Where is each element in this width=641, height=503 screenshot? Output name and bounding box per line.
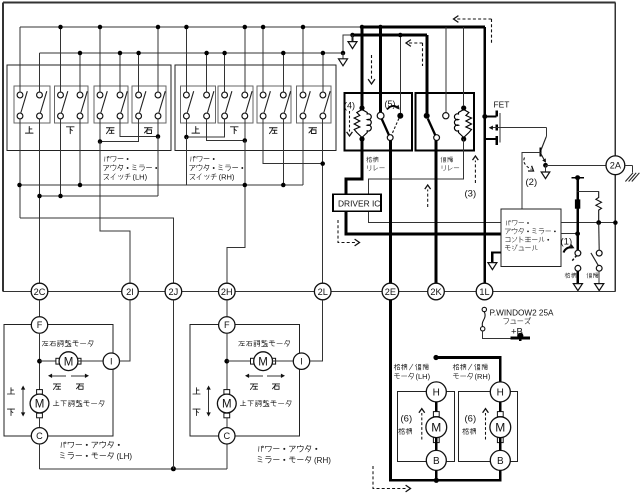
switch cell 下 (RH) box bbox=[218, 86, 253, 123]
svg-text:2K: 2K bbox=[430, 287, 442, 297]
switch contact 下R (RH) bbox=[242, 91, 252, 119]
wire M1 right lead (LH) bbox=[78, 360, 103, 362]
caption 左右調整モータ (LH) bbox=[42, 340, 93, 346]
wire K2 NO contact stub bbox=[445, 27, 447, 113]
node common 2J junction bbox=[171, 466, 176, 471]
wire LH 左L bottom stub bbox=[99, 119, 101, 142]
caption 上下調整モータ (RH) bbox=[240, 400, 291, 406]
label FET bbox=[494, 100, 510, 110]
caption パワー・アウタ・ミラー・モータ (RH) bbox=[258, 445, 331, 465]
label 右 under arrow (RH) bbox=[272, 384, 279, 389]
svg-text:+B: +B bbox=[511, 327, 523, 338]
wire RH 下R bottom stub bbox=[244, 119, 246, 141]
motor M1 (LH) bbox=[56, 352, 81, 371]
switch 格納 bottom circle bbox=[575, 265, 581, 271]
connector 1L bbox=[476, 283, 493, 300]
switch contact 上L (LH) bbox=[17, 91, 27, 119]
caption 格納 (RH retract) bbox=[463, 428, 476, 434]
wire LH 右R bottom stub bbox=[157, 119, 159, 137]
wire page right bus upper bbox=[614, 3, 616, 157]
wire feed bus 2 (y=53) bbox=[40, 52, 344, 54]
svg-text:H: H bbox=[497, 387, 504, 398]
svg-text:2J: 2J bbox=[169, 287, 179, 297]
wire switch top stub x283.3 to bus2 bbox=[282, 53, 284, 92]
label 下 (LH motor) bbox=[7, 409, 14, 415]
node resistor bottom bbox=[596, 220, 601, 225]
element fuse block bbox=[575, 199, 580, 208]
wire 2E to B motors bbox=[390, 300, 500, 481]
wire netB horizontal (y=196) bbox=[40, 195, 159, 197]
svg-text:C: C bbox=[223, 431, 230, 441]
node bus1 x60.5 bbox=[58, 25, 63, 30]
node bus1 x263.1 bbox=[261, 25, 266, 30]
label 右 (LH) bbox=[144, 128, 152, 134]
label (6) LH bbox=[401, 414, 413, 425]
fuse P.WINDOW2 upper circle bbox=[482, 307, 486, 311]
wire K1 common to 2E bbox=[389, 141, 392, 284]
relay contact K2 common circle bbox=[434, 135, 440, 141]
wire net 上R-LH down to 2C bbox=[39, 119, 41, 283]
transistor Q2 bbox=[541, 137, 547, 163]
node M junction (LH) bbox=[37, 359, 42, 364]
wire netA RH 右L stub bbox=[302, 119, 304, 185]
caption 左右調整モータ (RH) bbox=[239, 340, 290, 346]
wire F to M1/M2 (RH) bbox=[226, 333, 228, 394]
chip DRIVER IC box bbox=[333, 194, 381, 211]
label 左 (RH) bbox=[269, 128, 277, 134]
motor box LH outline bbox=[4, 325, 113, 436]
wire switch top stub x263.1 to bus1 bbox=[262, 27, 264, 92]
connector 2A circle bbox=[606, 156, 625, 175]
wire net 左L右L-LH to 2I bbox=[100, 142, 130, 284]
label 右 under arrow (LH) bbox=[76, 384, 83, 389]
wire common return bbox=[40, 468, 227, 470]
svg-text:I: I bbox=[110, 356, 113, 366]
switch contact 上R (RH) bbox=[204, 91, 214, 119]
svg-text:(LH): (LH) bbox=[416, 372, 431, 381]
wire H to M (LH) bbox=[435, 402, 438, 418]
wire net 下R-LH down bbox=[79, 119, 81, 185]
label 下 (RH) bbox=[230, 127, 238, 134]
node bus2 x224.6 bbox=[222, 51, 227, 56]
svg-text:M: M bbox=[64, 356, 74, 368]
wire H to M (RH) bbox=[499, 402, 502, 418]
label (3) bbox=[465, 189, 477, 200]
switch 復帰 blade bbox=[591, 253, 598, 265]
switch box LH outline bbox=[7, 65, 171, 151]
svg-text:I: I bbox=[300, 356, 303, 366]
terminal bar top bbox=[571, 175, 584, 180]
wire K1 coil to driver IC bbox=[346, 139, 362, 194]
wire net wireC to 2J bbox=[20, 218, 173, 283]
wire page left bus bbox=[2, 3, 4, 292]
wire driver IC out to module bbox=[346, 211, 501, 234]
svg-text:(6): (6) bbox=[465, 414, 477, 425]
wire B LH drop bbox=[435, 470, 438, 480]
wire Q2 emitter to 2A bbox=[546, 164, 606, 166]
flow arrow (3) dashed bbox=[473, 156, 479, 183]
connector B (LH retract) bbox=[426, 450, 446, 470]
connector C (LH) bbox=[31, 428, 47, 444]
wire detect branch right bbox=[578, 190, 599, 192]
wire fuse to +B bbox=[482, 331, 510, 338]
switch cell 右 (LH) box bbox=[132, 86, 166, 123]
switch cell 左 (RH) box bbox=[257, 86, 291, 123]
svg-text:M: M bbox=[222, 399, 232, 411]
relay K1 blade alt (dashed) bbox=[392, 118, 399, 134]
connector C (RH) bbox=[219, 428, 235, 444]
motor M (RH retract) bbox=[490, 412, 511, 443]
svg-text:(2): (2) bbox=[526, 177, 538, 188]
wire switch top stub x158 to bus1 bbox=[157, 27, 159, 92]
wire switch top stub x303 to bus1 bbox=[302, 27, 304, 92]
switch cell 左 (LH) box bbox=[94, 86, 128, 123]
switch cell 上 (LH) box bbox=[14, 86, 50, 123]
wire RH 上R-下R link bbox=[207, 119, 247, 143]
label 左 (LH) bbox=[106, 128, 114, 134]
node B junction bbox=[434, 478, 439, 483]
arrow 上下 (LH) bbox=[21, 386, 25, 417]
switch contact 右R (RH) bbox=[320, 91, 330, 119]
caption 格納 switch bbox=[565, 273, 576, 278]
caption 格納リレー bbox=[367, 157, 385, 171]
svg-text:(LH): (LH) bbox=[133, 173, 148, 182]
connector 2E bbox=[382, 283, 399, 300]
motor M2 (RH) bbox=[217, 390, 236, 418]
caption 格納 (LH retract) bbox=[399, 428, 412, 434]
caption 格納／復帰モータ (RH) bbox=[453, 364, 491, 381]
wire M1 right lead (RH) bbox=[273, 360, 294, 362]
flow arrow (1) curved bbox=[564, 244, 575, 253]
motor box RH outline bbox=[190, 325, 300, 436]
caption 格納／復帰モータ (LH) bbox=[394, 364, 431, 381]
wire netA horizontal (y=185) bbox=[20, 184, 304, 186]
switch box RH outline bbox=[175, 65, 336, 151]
node bus2 x206.6 bbox=[204, 51, 209, 56]
wire switch top stub x100 to bus1 bbox=[99, 27, 101, 92]
motor M (LH retract) bbox=[426, 412, 447, 443]
wire LH 左R-右R link bbox=[120, 119, 160, 139]
relay contact K1 common circle bbox=[387, 135, 393, 141]
svg-text:(4): (4) bbox=[344, 101, 355, 111]
wire switch top stub x80 to bus2 bbox=[79, 53, 81, 92]
wire switch top stub x244.8 to bus1 bbox=[244, 27, 246, 92]
svg-text:1L: 1L bbox=[479, 287, 489, 297]
caption 復帰リレー bbox=[441, 157, 459, 171]
label 左 under arrow (RH) bbox=[250, 384, 257, 390]
switch contact 上R (LH) bbox=[37, 91, 47, 119]
arrow 右 (RH) bbox=[267, 374, 285, 378]
flow arrow (2) curved bbox=[524, 158, 534, 172]
wire switch top stub x60.5 to bus1 bbox=[60, 27, 62, 92]
flow arrow D1 bbox=[454, 16, 492, 44]
label 上 (RH) bbox=[192, 126, 200, 133]
flow arrow D11 bbox=[373, 466, 411, 492]
relay contact K1 pivot circle bbox=[377, 112, 384, 119]
switch contact 下L (LH) bbox=[58, 91, 68, 119]
node Q2 emitter bbox=[543, 163, 548, 168]
wire module right to mirror sw detect bbox=[561, 233, 578, 235]
connector H (RH retract) bbox=[490, 382, 510, 402]
wire switch top stub x206.6 to bus2 bbox=[206, 53, 208, 92]
wire 2J drop bbox=[172, 300, 174, 469]
label 下 (LH) bbox=[66, 127, 74, 134]
wire netA RH 左R stub bbox=[282, 119, 284, 185]
relay box 復帰リレー outline bbox=[416, 93, 475, 151]
wire detect main down bbox=[576, 178, 579, 251]
wire feed bus 1 (y=27 thin part) bbox=[20, 26, 362, 28]
node bus1 x303 bbox=[301, 25, 306, 30]
svg-text:C: C bbox=[36, 431, 43, 441]
switch cell 右 (RH) box bbox=[297, 86, 332, 123]
flow arrow D3 bbox=[368, 55, 375, 84]
wire M2 to C (RH) bbox=[226, 418, 228, 428]
wire M1 left lead (RH) bbox=[227, 360, 254, 362]
label P.WINDOW2 25A bbox=[490, 308, 555, 317]
wire switch top stub x120 to bus2 bbox=[119, 53, 121, 92]
wire K2 coil return to module bbox=[369, 139, 501, 223]
node bus1 x244.8 bbox=[243, 25, 248, 30]
svg-text:(1): (1) bbox=[561, 237, 573, 248]
flow arrow (6) LH bbox=[419, 409, 425, 440]
node bus1 x362 bbox=[360, 25, 365, 30]
wire main feed down x485 bbox=[483, 27, 486, 283]
label (4) bbox=[344, 101, 355, 111]
wire K2 common to 2K bbox=[435, 141, 438, 284]
terminal +B bbox=[511, 333, 531, 341]
wire switch top stub x322.9 to bus2 bbox=[322, 53, 324, 92]
arrow 上下 (RH) bbox=[206, 386, 210, 417]
svg-text:M: M bbox=[495, 421, 505, 435]
wire LH 左L-右L link bbox=[98, 119, 139, 144]
arrow 左 (RH) bbox=[245, 374, 263, 378]
switch contact 左R (LH) bbox=[117, 91, 127, 119]
svg-text:2E: 2E bbox=[385, 287, 396, 297]
switch contact 左R (RH) bbox=[280, 91, 290, 119]
relay coil K2 (復帰リレー) bbox=[454, 105, 471, 141]
switch cell 上 (RH) box bbox=[181, 86, 216, 123]
label (6) RH bbox=[465, 414, 477, 425]
caption power outer mirror switch RH bbox=[190, 156, 244, 181]
node netA dots bbox=[17, 183, 285, 188]
node bus2 x80 bbox=[78, 51, 83, 56]
relay K1 blade bbox=[382, 119, 389, 135]
wire 2H to F (RH) bbox=[226, 300, 228, 317]
label 左 under arrow (LH) bbox=[53, 384, 60, 390]
switch 格納 top circle bbox=[575, 250, 581, 256]
switch cell 下 (LH) box bbox=[55, 86, 89, 123]
svg-text:(LH): (LH) bbox=[117, 452, 133, 461]
wire feed bus 1 thick part bbox=[362, 26, 485, 29]
wire 2K branch node bbox=[433, 355, 438, 360]
connector B (RH retract) bbox=[490, 450, 510, 470]
wire page top bus bbox=[3, 2, 615, 4]
switch contact 下L (RH) bbox=[222, 91, 232, 119]
caption 上下調整モータ (LH) bbox=[53, 400, 104, 406]
fuse lower circle bbox=[481, 327, 485, 331]
connector 2H bbox=[219, 283, 236, 300]
wire resistor to 復帰 switch bbox=[598, 223, 601, 251]
relay contact K2 pivot dot bbox=[424, 113, 430, 119]
connector H (LH retract) bbox=[426, 382, 446, 402]
node detect mid bbox=[575, 231, 580, 236]
switch 復帰 top circle bbox=[596, 250, 602, 256]
caption 復帰 switch bbox=[587, 273, 598, 278]
caption フューズ bbox=[504, 318, 531, 325]
label +B bbox=[511, 327, 523, 338]
caption power outer mirror switch LH bbox=[103, 156, 157, 181]
flow arrow D2 bbox=[406, 40, 423, 66]
svg-text:F: F bbox=[224, 320, 230, 330]
svg-text:(RH): (RH) bbox=[314, 456, 331, 465]
connector 2I bbox=[122, 283, 139, 300]
wire 2C to F bbox=[39, 300, 41, 317]
flow arrow (6) RH bbox=[483, 409, 489, 440]
ground arrow at feed bus2 end x343 bbox=[339, 51, 348, 66]
label 下 (RH motor) bbox=[193, 409, 200, 415]
wire RH 上L bottom stub bbox=[185, 119, 187, 137]
ground arrow 復帰 switch bbox=[595, 271, 604, 290]
wire M to B (RH) bbox=[499, 438, 502, 451]
wire feed bus 2 jog up bbox=[343, 35, 353, 53]
wire switch top stub x20 to bus1 bbox=[19, 27, 21, 92]
connector I (LH) bbox=[103, 353, 119, 369]
node bus1 x100 bbox=[98, 25, 103, 30]
wire FET gate to transistor bbox=[545, 128, 547, 137]
wire RH 上L-下L link bbox=[184, 119, 224, 139]
wire K2 pivot stub bbox=[426, 35, 429, 113]
connector 2L bbox=[314, 283, 331, 300]
svg-text:2I: 2I bbox=[126, 287, 134, 297]
wire switch top stub x224.6 to bus2 bbox=[224, 53, 226, 92]
wire connector bus bbox=[3, 291, 615, 293]
switch contact 下R (LH) bbox=[77, 91, 87, 119]
label DRIVER IC bbox=[338, 198, 380, 208]
label 上 (RH motor) bbox=[193, 388, 200, 394]
wire netA RH 上L下L leg bbox=[185, 137, 187, 185]
switch contact 右L (LH) bbox=[136, 91, 146, 119]
wire I to 2I (LH) bbox=[120, 300, 131, 361]
wire feed bus 2 thick part (y=35) bbox=[353, 34, 428, 37]
wire switch top stub x186.4 to bus1 bbox=[185, 27, 187, 92]
svg-text:(3): (3) bbox=[465, 189, 477, 200]
wire F to M1/M2 (LH) bbox=[39, 333, 41, 394]
flow arrow (4) dashed bbox=[347, 111, 353, 136]
wire Q2 base to module bbox=[522, 152, 541, 209]
wire switch top stub x39.5 to bus2 bbox=[39, 53, 41, 92]
svg-text:H: H bbox=[433, 387, 440, 398]
label (1) bbox=[561, 237, 573, 248]
wire net 左R右R-LH down bbox=[157, 137, 159, 197]
motor box retract RH outline bbox=[458, 391, 517, 461]
wire net 上L-LH down bbox=[19, 119, 21, 218]
wire switch top stub x138.6 to bus2 bbox=[138, 53, 140, 92]
motor M2 (LH) bbox=[30, 390, 49, 418]
wire I to 2L (RH) bbox=[310, 300, 323, 361]
connector 2J bbox=[165, 283, 182, 300]
connector F (LH) bbox=[31, 317, 47, 333]
flow arrow D12 bbox=[425, 185, 431, 207]
wire 2K to H motors bbox=[436, 358, 500, 382]
svg-text:B: B bbox=[433, 456, 440, 467]
label (5) bbox=[385, 99, 396, 109]
fuse element bbox=[482, 312, 485, 327]
wire netA to 2H bbox=[227, 185, 245, 283]
wire page right bus lower bbox=[614, 174, 616, 291]
svg-text:M: M bbox=[258, 356, 268, 368]
relay coil K1 (格納リレー) bbox=[354, 105, 371, 141]
relay K2 blade bbox=[428, 119, 435, 135]
svg-text:M: M bbox=[431, 421, 441, 435]
label 右 (RH) bbox=[309, 128, 317, 134]
svg-text:2L: 2L bbox=[318, 287, 328, 297]
node bus1 x158 bbox=[156, 25, 161, 30]
arrow 左 (LH) bbox=[48, 374, 66, 378]
ground arrow at feed bus2 x352 bbox=[348, 33, 357, 49]
ground arrow module bbox=[488, 253, 501, 270]
svg-text:2C: 2C bbox=[34, 287, 46, 297]
wire M2 to C (LH) bbox=[39, 418, 41, 428]
label 上 (LH motor) bbox=[7, 388, 14, 394]
flow arrow (5) curved bbox=[387, 105, 400, 110]
svg-text:FET: FET bbox=[494, 100, 510, 110]
node bus2 x322.9 bbox=[321, 51, 326, 56]
resistor R detect bbox=[596, 191, 602, 222]
switch contact 左L (LH) bbox=[97, 91, 107, 119]
node netB dots bbox=[37, 194, 63, 199]
wire coil K2 top to bus1 bbox=[463, 27, 465, 106]
svg-text:(RH): (RH) bbox=[219, 173, 235, 182]
switch 格納 blade dashed bbox=[571, 256, 576, 262]
ground arrow 格納 switch bbox=[573, 271, 582, 290]
relay box 格納リレー outline bbox=[345, 93, 413, 151]
connector I (RH) bbox=[293, 353, 309, 369]
wire K1 NC contact stub bbox=[398, 33, 403, 113]
wire coil K1 top to bus1 bbox=[361, 27, 364, 106]
node net 2L dot bbox=[320, 161, 325, 166]
switch contact 上L (RH) bbox=[184, 91, 194, 119]
motor box retract LH outline bbox=[397, 391, 454, 461]
wire M to B (LH) bbox=[435, 438, 438, 451]
svg-text:(RH): (RH) bbox=[475, 372, 491, 381]
switch contact 右L (RH) bbox=[300, 91, 310, 119]
wire RH 右R to 2L bbox=[322, 119, 324, 283]
wire M1 left lead (LH) bbox=[40, 360, 60, 362]
wire net 下L-LH down bbox=[60, 119, 62, 196]
module box outline bbox=[501, 209, 561, 267]
wire module right to resistor net bbox=[561, 220, 618, 225]
node bus1 x186.4 bbox=[184, 25, 189, 30]
wire RH 左L stub down bbox=[263, 119, 323, 164]
wire C LH to common bbox=[39, 444, 41, 469]
connector 2C bbox=[31, 283, 48, 300]
svg-text:P.WINDOW2 25A: P.WINDOW2 25A bbox=[490, 308, 555, 317]
relay contact K2 fixed circle bbox=[443, 113, 449, 119]
wire C RH to common bbox=[226, 444, 228, 469]
switch contact 左L (RH) bbox=[260, 91, 270, 119]
label 上 (LH) bbox=[25, 126, 33, 133]
node bus2 x283.3 bbox=[281, 51, 286, 56]
connector 2K bbox=[428, 283, 445, 300]
flow arrow D10 bbox=[338, 220, 360, 246]
svg-text:M: M bbox=[35, 399, 45, 411]
arrow 右 (LH) bbox=[71, 374, 89, 378]
ground chassis at 2A bbox=[625, 165, 640, 181]
svg-text:DRIVER IC: DRIVER IC bbox=[338, 198, 380, 208]
wire K1 pivot stub bbox=[379, 27, 382, 112]
wire netA RH 上下 junction leg bbox=[244, 141, 246, 186]
svg-text:2H: 2H bbox=[221, 287, 233, 297]
